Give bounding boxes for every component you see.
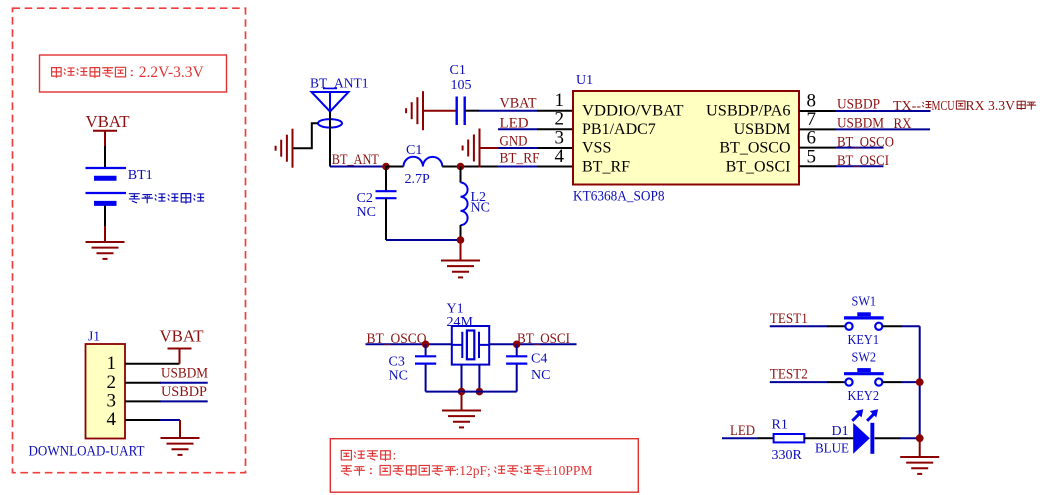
wire pin 5 stub: [799, 165, 836, 167]
label: single coin cell battery (CJK): [129, 194, 204, 204]
capacitor C3 NC: [389, 344, 437, 391]
note box: crystal selection requirements: [330, 439, 638, 493]
resistor R1 330R: [772, 418, 805, 464]
node junction: [382, 163, 390, 171]
svg-text:TEST2: TEST2: [770, 367, 808, 383]
wire BT_ANT net: [330, 166, 387, 168]
ground (antenna, rotated): [276, 129, 293, 168]
svg-text:TX--: TX--: [893, 98, 922, 113]
wire crystal row: [366, 343, 577, 345]
svg-text:VBAT: VBAT: [500, 96, 537, 112]
wire pin1: [125, 363, 180, 365]
wire net BT_RF to pin 4: [498, 166, 538, 168]
node junction: [513, 341, 521, 349]
wire: [883, 325, 902, 327]
svg-text:2.2V-3.3V: 2.2V-3.3V: [139, 64, 205, 81]
wire: [442, 166, 498, 168]
svg-text:5: 5: [807, 146, 817, 167]
svg-text:U1: U1: [576, 73, 593, 88]
svg-text:SW1: SW1: [852, 295, 877, 310]
switch SW2 KEY2: [844, 350, 884, 404]
svg-text:C1: C1: [450, 63, 466, 78]
svg-text:BT_OSCO: BT_OSCO: [719, 140, 790, 157]
wire: [804, 437, 853, 439]
ground (battery): [86, 242, 125, 259]
svg-text:VBAT: VBAT: [160, 327, 205, 346]
svg-text:C3: C3: [389, 355, 405, 370]
wire net LED to pin 2: [498, 128, 538, 130]
capacitor C1 105 (decoupling): [450, 63, 472, 125]
node junction: [476, 388, 484, 396]
svg-text:105: 105: [451, 78, 472, 93]
svg-text:VDDIO/VBAT: VDDIO/VBAT: [582, 103, 684, 120]
wire ground to pin 3: [480, 147, 500, 149]
wire crystal bottom pins: [462, 365, 480, 392]
svg-text:USBDP: USBDP: [837, 97, 880, 113]
svg-text:330R: 330R: [772, 448, 803, 463]
svg-text::12pF;: :12pF;: [456, 463, 491, 478]
svg-text:NC: NC: [389, 369, 408, 384]
svg-text:USBDM: USBDM: [837, 116, 884, 132]
crystal Y1 24M: [447, 302, 490, 365]
svg-text:BT_OSCI: BT_OSCI: [726, 158, 791, 175]
wire pin 6 stub: [799, 147, 836, 149]
wire ground to C1: [423, 110, 456, 112]
svg-text:RX 3.3V: RX 3.3V: [966, 98, 1016, 113]
wire net USBDP: [160, 400, 208, 402]
svg-text:LED: LED: [730, 423, 755, 439]
svg-text:KT6368A_SOP8: KT6368A_SOP8: [573, 189, 665, 205]
wire net USBDM: [160, 382, 208, 384]
wire vertical bus: [919, 326, 921, 438]
node junction: [457, 163, 465, 171]
wire: [758, 437, 774, 439]
wire: [386, 166, 404, 168]
wire pin3: [125, 400, 161, 402]
svg-text:C2: C2: [357, 191, 373, 206]
svg-text:C1: C1: [406, 143, 422, 158]
switch SW1 KEY1: [844, 295, 884, 349]
svg-text:BLUE: BLUE: [815, 441, 849, 456]
svg-text:MCU: MCU: [932, 98, 955, 113]
ground (crystal): [442, 392, 481, 428]
svg-text:BT_OSCI: BT_OSCI: [837, 153, 889, 169]
capacitor C2 NC (shunt): [357, 167, 397, 241]
svg-text:SW2: SW2: [852, 350, 877, 365]
wire net VBAT to pin 1: [465, 110, 479, 112]
svg-text:C4: C4: [531, 352, 547, 367]
svg-text:J1: J1: [88, 329, 100, 344]
ground (key/led): [900, 438, 939, 474]
inductor L2 NC (shunt): [461, 167, 490, 241]
node junction: [458, 388, 466, 396]
capacitor C4 NC: [506, 344, 550, 391]
svg-text:DOWNLOAD-UART: DOWNLOAD-UART: [29, 444, 145, 460]
wire bottom of pi filter: [386, 239, 461, 241]
wire: [104, 146, 106, 168]
wire antenna stem: [329, 112, 331, 167]
wire: [883, 381, 902, 383]
svg-text:1: 1: [107, 353, 117, 374]
wire to vertical bus: [901, 325, 920, 327]
wire net USBDM (pin 7): [836, 128, 931, 130]
wire: [104, 206, 106, 228]
svg-text:KEY1: KEY1: [848, 333, 880, 348]
wire pin 7 stub: [799, 128, 836, 130]
ground (GND pin 3, rotated): [463, 129, 480, 168]
svg-text:VBAT: VBAT: [86, 112, 131, 131]
ground (C1 105, rotated): [406, 91, 423, 130]
svg-text:BT_OSCO: BT_OSCO: [367, 331, 427, 347]
wire: [875, 437, 900, 439]
svg-text:RX: RX: [894, 116, 912, 132]
svg-text::: :: [393, 448, 397, 463]
power symbol VBAT (battery branch): [86, 112, 131, 147]
LED D1 BLUE: [815, 409, 878, 456]
wire antenna tap to ground: [293, 123, 318, 148]
wire net BT_OSCI (pin 5): [836, 165, 884, 167]
svg-text:USBDM: USBDM: [161, 365, 208, 381]
svg-text:BT_ANT: BT_ANT: [332, 152, 379, 168]
svg-text:4: 4: [555, 146, 565, 167]
wire pin 8 stub: [799, 110, 836, 112]
svg-text:NC: NC: [471, 201, 490, 216]
antenna BT_ANT1: [310, 76, 369, 128]
wire net TEST2: [770, 381, 828, 383]
svg-text:TEST1: TEST1: [770, 311, 808, 327]
note TX to MCU RX 3.3V level (CJK mixed): [893, 98, 1036, 113]
capacitor C1 2.7P (series, drawn as arcs): [404, 143, 443, 187]
svg-text:NC: NC: [357, 205, 376, 220]
svg-text:PB1/ADC7: PB1/ADC7: [582, 121, 656, 138]
svg-text:USBDP: USBDP: [161, 384, 207, 400]
svg-text:±10PPM: ±10PPM: [545, 463, 593, 478]
node junction: [457, 236, 465, 244]
svg-text:VSS: VSS: [582, 140, 611, 157]
note box: power supply range 2.2V-3.3V: [40, 55, 227, 92]
svg-text:D1: D1: [832, 424, 849, 439]
svg-text:LED: LED: [500, 116, 529, 132]
wire pin2: [125, 382, 161, 384]
ground (pi filter): [441, 240, 480, 277]
battery BT1: [86, 168, 153, 203]
svg-text:2.7P: 2.7P: [405, 172, 431, 187]
node junction: [422, 341, 430, 349]
wire to vertical bus: [900, 437, 920, 439]
node junction: [916, 378, 924, 386]
svg-text:USBDM: USBDM: [734, 121, 791, 138]
svg-text:BT_RF: BT_RF: [582, 158, 630, 175]
svg-text:KEY2: KEY2: [848, 389, 880, 404]
wire net LED: [722, 437, 759, 439]
IC U1 KT6368A_SOP8: [573, 73, 799, 205]
power symbol VBAT (J1 pin1): [160, 327, 205, 364]
svg-text:BT_RF: BT_RF: [500, 150, 540, 166]
wire net BT_OSCO (pin 6): [836, 147, 884, 149]
wire net TEST1: [770, 325, 828, 327]
wire to vertical bus: [901, 381, 920, 383]
svg-text:4: 4: [107, 409, 117, 430]
connector J1 DOWNLOAD-UART: [29, 329, 145, 460]
ground (J1 pin4): [161, 420, 200, 455]
wire net USBDP (pin 8): [836, 110, 931, 112]
wire crystal bottom: [426, 391, 517, 393]
svg-text:BT_OSCI: BT_OSCI: [517, 331, 570, 347]
svg-text:R1: R1: [772, 418, 788, 433]
wire: [827, 381, 845, 383]
svg-text:USBDP/PA6: USBDP/PA6: [706, 103, 791, 120]
wire pin4: [125, 419, 161, 421]
wire: [827, 325, 845, 327]
svg-text:NC: NC: [531, 368, 550, 383]
svg-text:BT_OSCO: BT_OSCO: [837, 134, 894, 150]
svg-text:BT_ANT1: BT_ANT1: [310, 76, 369, 91]
svg-text:BT1: BT1: [128, 168, 153, 183]
node junction: [916, 434, 924, 442]
svg-text:GND: GND: [500, 134, 528, 150]
